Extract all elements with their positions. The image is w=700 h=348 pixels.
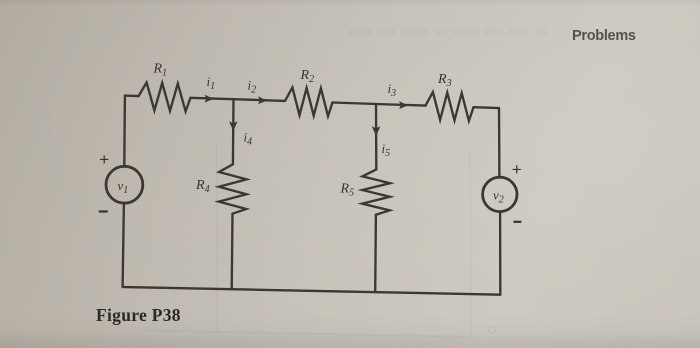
wire: R5 bottom to bottom wire [374,215,377,292]
svg-text:v1: v1 [118,178,129,196]
svg-text:i4: i4 [244,130,253,148]
current arrow i1 [205,95,214,103]
V2 minus sign [514,221,522,223]
wire: bottom rail [123,287,501,295]
current arrow i2 [258,96,267,104]
faint ghost smudge row top [347,29,550,35]
svg-text:+: + [99,150,109,169]
wire: node B down to R5 [375,104,378,169]
svg-text:i5: i5 [382,141,391,159]
voltage source V2 [483,177,517,211]
wire: top-left corner to R1 left lead [125,94,139,97]
resistor R2 [285,87,333,116]
svg-text:v2: v2 [493,188,504,206]
wire: left vertical, top corner down to V1 [123,96,126,167]
wire: R3 right lead to top-right corner [474,106,500,109]
svg-text:i3: i3 [388,81,397,99]
current arrow i4 [229,121,238,131]
svg-text:R5: R5 [340,182,355,199]
wire: R1 right lead to node A [191,98,234,99]
wire: R4 bottom to bottom wire [231,214,234,290]
wire: R2 right lead to node B [333,103,377,105]
running head: Problems [572,28,636,44]
resistor R5 [362,169,390,214]
wire: node A down to R4 [232,99,235,164]
wire: V1 bottom to bottom-left corner [123,203,124,287]
svg-text:i2: i2 [248,78,257,96]
faint bleed-through horizontal line bottom [145,331,471,338]
resistor R3 [426,92,474,121]
current arrow i3 [399,101,408,109]
resistor R4 [219,164,247,213]
wire: node B to R3 left lead [376,104,426,106]
svg-text:R1: R1 [153,62,168,79]
faint ghost circle bottom right [488,326,495,333]
svg-text:i1: i1 [207,74,216,92]
faint bleed-through vertical line right [470,150,471,337]
V1 minus sign [99,210,108,212]
faint bleed-through vertical line left [217,143,218,331]
wire: node A to R2 left lead [234,99,286,101]
resistor R1 [139,83,191,112]
svg-text:R2: R2 [300,68,315,85]
svg-text:R4: R4 [195,178,210,195]
voltage source V1 [106,166,143,203]
wire: V2 bottom to bottom-right corner [499,212,502,295]
figure caption [96,305,181,326]
wire: top-right corner down to V2 [498,108,501,177]
svg-text:+: + [512,160,522,179]
svg-text:R3: R3 [437,72,452,89]
current arrow i5 [372,126,381,136]
